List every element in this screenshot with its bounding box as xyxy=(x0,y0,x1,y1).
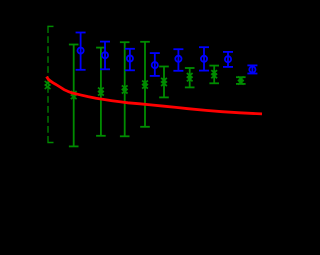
green double-X marker at dashed line xyxy=(45,81,51,89)
blue errorbar B7 xyxy=(223,52,233,67)
green dashed errorbar bottom cap xyxy=(47,142,53,144)
blue errorbar B6 xyxy=(199,47,209,70)
green errorbar G6 xyxy=(185,68,195,87)
blue errorbar B1 xyxy=(76,33,86,70)
green errorbar G2 xyxy=(96,48,106,136)
green errorbar G3 xyxy=(120,42,130,136)
green errorbar G8 xyxy=(236,77,246,85)
blue errorbar B2 xyxy=(100,42,110,70)
blue errorbar B8 xyxy=(247,65,257,73)
red fit curve xyxy=(47,77,263,114)
green errorbar G5 xyxy=(159,67,169,98)
blue errorbar B5 xyxy=(173,49,183,71)
blue errorbar B3 xyxy=(125,49,135,71)
blue errorbar B4 xyxy=(150,53,160,76)
green errorbar G1 xyxy=(69,45,79,147)
green dashed errorbar top cap xyxy=(47,25,53,27)
green errorbar G7 xyxy=(209,66,219,84)
green dashed errorbar (vertical line) xyxy=(47,26,49,142)
green errorbar G4 xyxy=(140,42,150,127)
